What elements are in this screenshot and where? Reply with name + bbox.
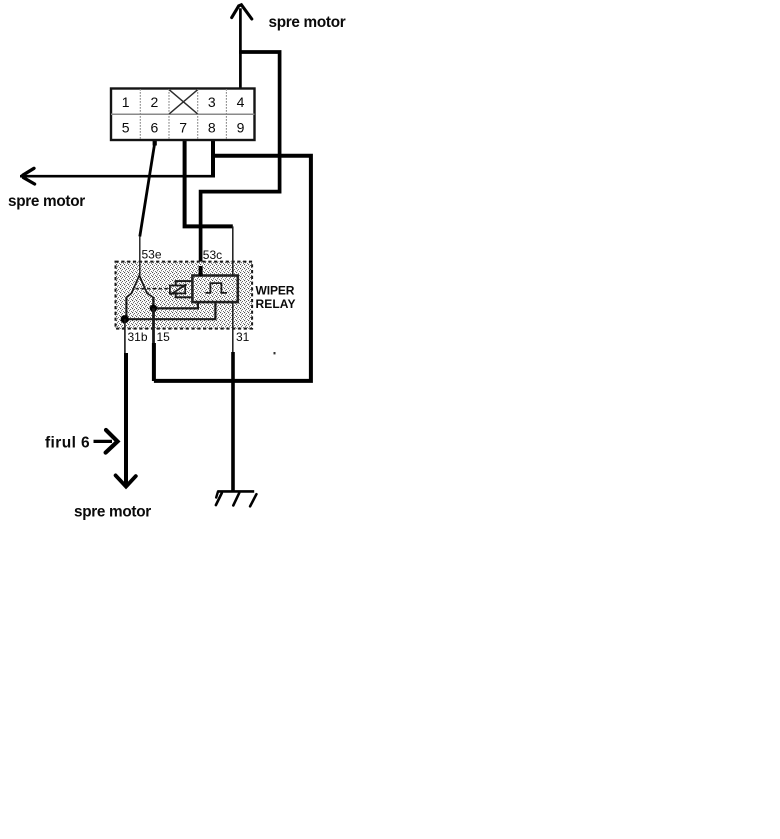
svg-text:7: 7	[179, 119, 187, 135]
svg-text:firul 6: firul 6	[45, 434, 90, 451]
contact triangle (switch)	[126, 275, 153, 297]
svg-text:4: 4	[237, 94, 245, 110]
wire: junction 31b to timer box bottom	[125, 302, 216, 320]
wire: top feed to motor (vertical from pin 4)	[239, 8, 242, 88]
wire: terminal 15 down to horizontal feed	[152, 308, 155, 344]
dashed control link	[136, 288, 170, 290]
svg-text:53e: 53e	[142, 248, 162, 262]
svg-text:spre motor: spre motor	[8, 193, 85, 210]
crossed-out cell	[169, 90, 197, 114]
wire: pin 6 diagonal to relay 53e	[153, 139, 157, 146]
wire: branch from top feed to relay 53c	[201, 52, 280, 268]
svg-text:2: 2	[151, 94, 159, 110]
svg-text:6: 6	[151, 119, 159, 135]
svg-text:31: 31	[236, 330, 250, 344]
svg-text:5: 5	[122, 119, 130, 135]
svg-text:9: 9	[237, 119, 245, 135]
svg-text:spre motor: spre motor	[74, 504, 151, 521]
svg-text:WIPER: WIPER	[256, 283, 295, 297]
junction dot (15 node)	[150, 305, 157, 312]
wire: 53e thin lead into triangle apex	[139, 236, 141, 276]
connector block J1	[111, 89, 255, 141]
junction dot (31b node)	[121, 315, 129, 323]
wire: 53c lead into timer box	[199, 266, 203, 276]
svg-text:8: 8	[208, 119, 216, 135]
wire: pin 8 branch to relay terminal 15 (right loop)	[154, 156, 311, 381]
coil bracket box (behind pulse box)	[176, 281, 198, 297]
arrow: firul 6 pointer	[94, 440, 113, 443]
svg-text:1: 1	[122, 94, 130, 110]
arrowhead: left arrow (spre motor left)	[23, 168, 34, 175]
relay coil with slash	[170, 284, 187, 295]
wire: junction 15 to timer box bottom	[153, 302, 198, 309]
arrowhead: down arrow (spre motor bottom)	[116, 475, 136, 486]
ground symbol	[216, 491, 257, 506]
svg-text:53c: 53c	[203, 248, 222, 262]
timer unit box with pulse symbol	[192, 276, 237, 303]
wire: terminal 31b down (firul 6)	[124, 319, 126, 354]
svg-text:3: 3	[208, 94, 216, 110]
relay body: stippled box with dashed border (WIPER RELAY)	[116, 262, 253, 329]
svg-text:RELAY: RELAY	[256, 297, 296, 311]
speck artifact	[274, 352, 276, 354]
wire: right contact leg down to junction	[152, 297, 154, 308]
svg-text:spre motor: spre motor	[269, 14, 346, 31]
wire: 31 line through relay down to ground	[232, 226, 234, 353]
wire: pin 8 down to left-arrow line	[211, 140, 215, 176]
svg-text:31b: 31b	[128, 330, 148, 344]
wire: left contact leg down to junction	[125, 297, 127, 319]
svg-text:15: 15	[157, 330, 171, 344]
wire: line to motor (left)	[20, 175, 215, 178]
arrowhead: up arrow (spre motor top)	[232, 5, 252, 19]
wire: pin 7 down and right to relay 31 line	[185, 140, 233, 226]
